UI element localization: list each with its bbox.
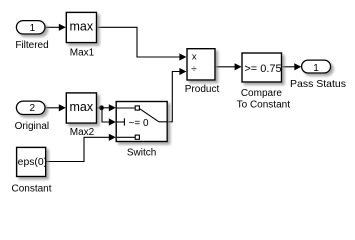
svg-text:max: max bbox=[69, 19, 93, 33]
svg-text:To Constant: To Constant bbox=[237, 100, 291, 111]
svg-text:Product: Product bbox=[185, 84, 220, 95]
svg-text:Max1: Max1 bbox=[70, 48, 95, 59]
svg-text:eps(0): eps(0) bbox=[18, 157, 47, 168]
svg-text:>= 0.75: >= 0.75 bbox=[244, 63, 281, 75]
svg-text:÷: ÷ bbox=[191, 64, 197, 75]
svg-text:Constant: Constant bbox=[11, 184, 51, 195]
svg-text:2: 2 bbox=[30, 103, 36, 114]
svg-text:Compare: Compare bbox=[241, 88, 283, 99]
svg-text:max: max bbox=[69, 100, 93, 114]
svg-text:Pass Status: Pass Status bbox=[290, 78, 346, 90]
svg-text:Max2: Max2 bbox=[70, 127, 95, 138]
svg-text:Switch: Switch bbox=[127, 148, 156, 159]
svg-text:~= 0: ~= 0 bbox=[128, 118, 148, 129]
svg-text:Filtered: Filtered bbox=[15, 40, 48, 51]
svg-text:Original: Original bbox=[15, 121, 49, 132]
svg-text:1: 1 bbox=[313, 63, 319, 74]
svg-text:x: x bbox=[192, 52, 197, 63]
svg-text:1: 1 bbox=[30, 23, 36, 34]
